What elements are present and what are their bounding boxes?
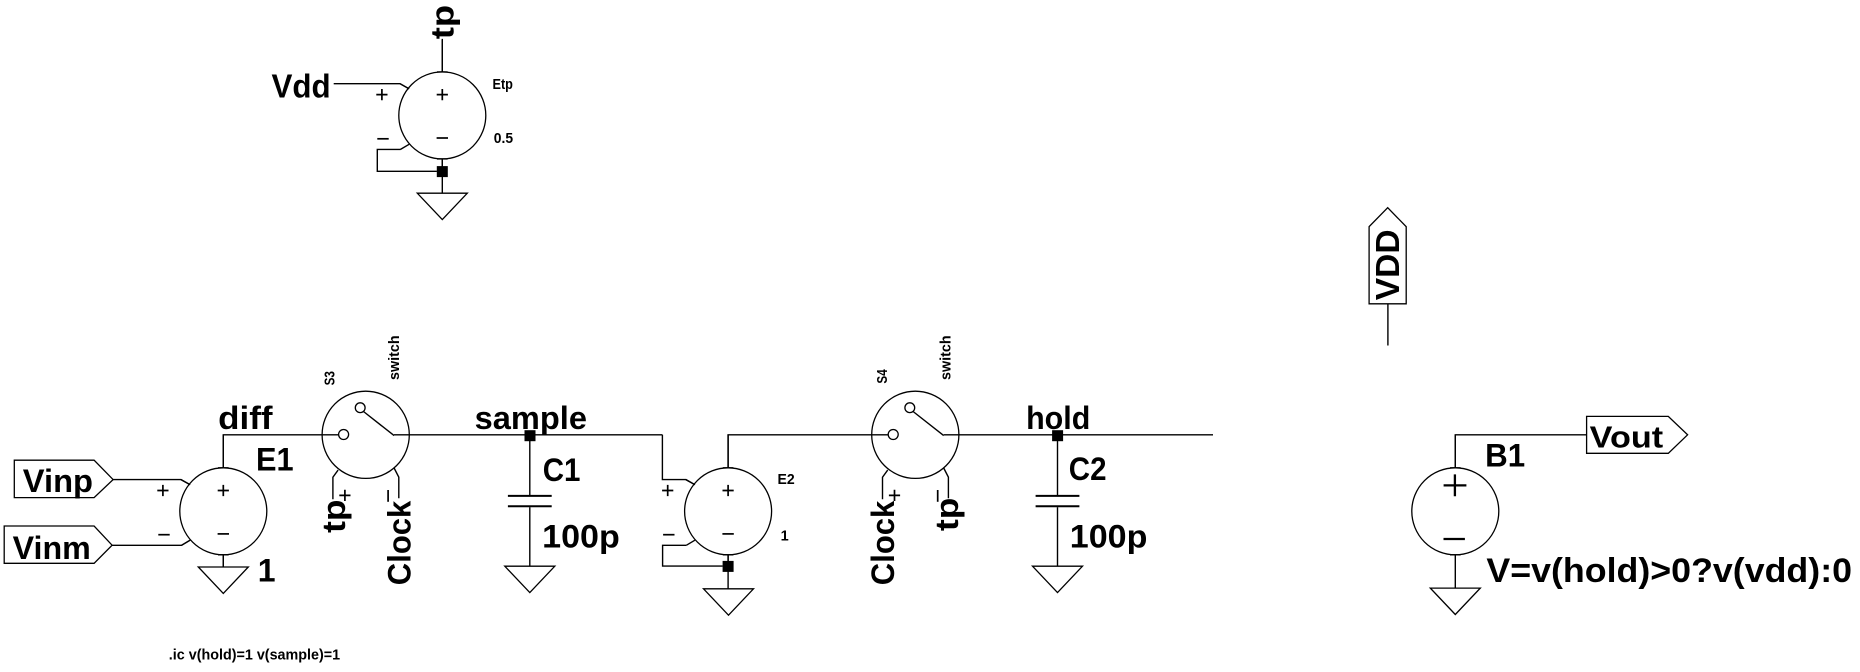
svg-text:S3: S3 xyxy=(323,371,339,385)
wire E2 bottom pin to ground xyxy=(727,555,729,589)
svg-text:Vinm: Vinm xyxy=(13,530,91,566)
svg-text:Clock: Clock xyxy=(382,501,418,586)
svg-text:Vinp: Vinp xyxy=(23,463,93,499)
svg-text:1: 1 xyxy=(781,528,789,544)
wire B1 output to Vout flag xyxy=(1455,435,1586,468)
wire tp to Etp top pin xyxy=(441,40,443,72)
svg-text:S4: S4 xyxy=(875,369,891,383)
vcvs E2 body xyxy=(662,435,772,567)
svg-text:tp: tp xyxy=(316,500,352,533)
port flag Vinm xyxy=(4,526,112,563)
wire sample branch down to E2 plus control xyxy=(662,435,695,485)
port flag Vinp xyxy=(14,460,113,497)
ground below E2 xyxy=(704,589,754,615)
ground below E1 xyxy=(198,567,248,593)
svg-text:Vdd: Vdd xyxy=(272,67,331,104)
ground below Etp xyxy=(417,193,467,219)
ground below B1 xyxy=(1430,588,1480,614)
wire S4 to hold node to open end xyxy=(944,434,1213,436)
svg-text:switch: switch xyxy=(939,335,955,380)
svg-text:1: 1 xyxy=(258,553,276,589)
wire E2 minus control to bottom node xyxy=(663,545,723,566)
switch S3 body xyxy=(322,391,409,502)
svg-text:B1: B1 xyxy=(1485,438,1525,474)
node junction Etp minus feedback xyxy=(437,166,448,177)
svg-text:V=v(hold)>0?v(vdd):0: V=v(hold)>0?v(vdd):0 xyxy=(1486,552,1852,590)
power flag VDD xyxy=(1369,208,1406,304)
svg-text:0.5: 0.5 xyxy=(494,131,513,147)
switch S4 body xyxy=(872,391,959,502)
svg-text:sample: sample xyxy=(475,400,587,436)
svg-text:100p: 100p xyxy=(542,519,620,555)
svg-text:.ic v(hold)=1 v(sample)=1: .ic v(hold)=1 v(sample)=1 xyxy=(169,647,340,663)
wire S3 to sample to E2 control branch xyxy=(394,434,662,436)
svg-text:C2: C2 xyxy=(1069,451,1107,487)
svg-text:Etp: Etp xyxy=(493,77,514,93)
wire E1 bottom pin to ground xyxy=(222,555,224,567)
svg-text:100p: 100p xyxy=(1070,519,1148,555)
svg-text:tp: tp xyxy=(425,5,461,39)
svg-text:diff: diff xyxy=(218,400,273,436)
svg-text:Vout: Vout xyxy=(1590,419,1663,454)
wire VDD flag stub xyxy=(1387,304,1389,346)
node junction sample xyxy=(525,430,536,441)
capacitor C1 body xyxy=(508,435,552,566)
node junction E2 minus feedback xyxy=(723,561,734,572)
vcvs Etp body xyxy=(376,39,486,171)
ground below C2 xyxy=(1033,566,1083,592)
capacitor C2 body xyxy=(1036,435,1080,566)
port flag Vout xyxy=(1587,416,1688,453)
svg-text:hold: hold xyxy=(1026,400,1090,436)
wire E1 output to switch S3 xyxy=(223,435,338,468)
wire E2 output to switch S4 xyxy=(728,435,888,468)
svg-text:switch: switch xyxy=(387,335,403,380)
svg-text:tp: tp xyxy=(929,498,965,531)
ground below C1 xyxy=(505,566,555,592)
wire Vinp to E1 plus control xyxy=(113,480,190,485)
behavioral source B1 body xyxy=(1412,435,1499,588)
svg-text:C1: C1 xyxy=(543,452,581,488)
wire Vinm to E1 minus control xyxy=(112,540,190,545)
svg-text:VDD: VDD xyxy=(1369,229,1406,300)
svg-text:Clock: Clock xyxy=(865,501,901,586)
svg-text:E1: E1 xyxy=(256,441,294,477)
vcvs E1 body xyxy=(157,435,266,567)
node junction hold xyxy=(1052,430,1063,441)
svg-text:E2: E2 xyxy=(778,472,795,488)
wire Vdd to Etp plus control xyxy=(334,84,409,89)
wire Etp bottom pin to ground xyxy=(441,159,443,193)
wire Etp minus control to bottom node xyxy=(377,149,437,171)
